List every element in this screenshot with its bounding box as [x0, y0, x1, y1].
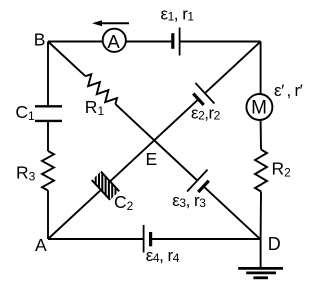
- wire right side top-right corner to motor M: [260, 42, 262, 94]
- wire diagonal battery e2 through node E to C2: [110, 99, 199, 181]
- wire bottom side battery e4 to D: [151, 238, 261, 240]
- resistor R3: [42, 151, 54, 191]
- battery E3: short thick plate: [198, 181, 209, 192]
- svg-text:A: A: [35, 235, 47, 255]
- svg-text:R3: R3: [16, 163, 36, 184]
- wire bottom side A to battery e4: [48, 238, 144, 240]
- wire top side battery e1 to top-right corner: [180, 41, 261, 43]
- svg-text:ε4, r4: ε4, r4: [146, 246, 180, 265]
- capacitor C2 upper plate: [101, 172, 119, 192]
- svg-text:B: B: [34, 30, 46, 50]
- wire left side R3 to A: [47, 191, 49, 240]
- svg-text:ε′,r′: ε′,r′: [274, 81, 303, 100]
- battery E1: short thick plate: [171, 33, 174, 49]
- resistor R1: [85, 74, 117, 104]
- wire diagonal B to R1: [48, 42, 85, 77]
- svg-text:R1: R1: [85, 97, 105, 118]
- wire D to ground: [260, 239, 262, 268]
- capacitor C1 top plate: [35, 105, 62, 107]
- svg-text:ε3, r3: ε3, r3: [172, 191, 206, 210]
- wire top side ammeter to battery e1: [126, 41, 171, 43]
- wire left side C1 to R3: [47, 121, 49, 151]
- motor M circle: [246, 94, 272, 120]
- wire right side R2 to D: [260, 192, 262, 240]
- wire diagonal top-right corner to battery e2: [205, 42, 261, 94]
- svg-text:D: D: [268, 234, 281, 254]
- svg-text:M: M: [251, 98, 267, 119]
- capacitor C2 dielectric hatching: [96, 166, 116, 204]
- svg-text:ε2,r2: ε2,r2: [191, 103, 221, 122]
- svg-text:A: A: [107, 31, 120, 52]
- wire diagonal battery e3 to D: [204, 186, 261, 239]
- battery E1: long thin plate: [179, 28, 181, 56]
- wire right side motor M to R2: [260, 121, 262, 150]
- current direction arrow above ammeter: [92, 20, 129, 26]
- capacitor C1 bottom plate: [35, 120, 62, 122]
- svg-text:ε1, r1: ε1, r1: [161, 4, 195, 23]
- battery E3: long thin plate: [187, 170, 207, 192]
- battery E2: long thin plate: [195, 83, 214, 104]
- wire top side B to ammeter: [48, 41, 103, 43]
- battery E4: short thick plate: [149, 232, 152, 246]
- battery E2: short thick plate: [193, 94, 204, 105]
- wire left side B to C1: [47, 42, 49, 107]
- ground: [238, 268, 283, 277]
- svg-text:C2: C2: [114, 192, 134, 213]
- wire diagonal C2 to A: [48, 190, 101, 239]
- resistor R2: [255, 150, 267, 192]
- capacitor C2 lower plate: [92, 180, 110, 200]
- svg-text:C1: C1: [15, 102, 35, 123]
- wire diagonal R1 through node E to battery e3: [115, 104, 197, 180]
- svg-text:E: E: [146, 149, 158, 169]
- ammeter U? circle: [103, 29, 126, 52]
- svg-text:R2: R2: [272, 159, 292, 180]
- battery E4: long thin plate: [143, 225, 145, 253]
